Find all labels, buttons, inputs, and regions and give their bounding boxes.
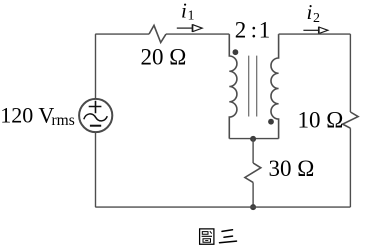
- svg-text:1: 1: [188, 9, 195, 24]
- primary phase dot: [233, 49, 239, 55]
- junction node top of 30ohm: [250, 136, 256, 142]
- source minus sign: [90, 125, 101, 127]
- wire left vertical upper: [95, 34, 97, 98]
- svg-text:2: 2: [313, 11, 320, 26]
- arrow i2: [303, 29, 318, 31]
- resistor R 20ohm zigzag: [149, 25, 166, 42]
- AC source circle: [79, 99, 112, 132]
- svg-text:i: i: [181, 0, 187, 23]
- source plus sign: [89, 101, 102, 113]
- caption glyph tu (figure): [200, 229, 214, 244]
- wire right vertical upper: [349, 34, 351, 112]
- wire down to 30ohm: [252, 139, 254, 163]
- svg-text:2: 2: [235, 17, 247, 42]
- svg-text:rms: rms: [52, 112, 75, 129]
- arrow i1: [177, 27, 193, 29]
- svg-text:30 Ω: 30 Ω: [269, 156, 315, 181]
- wire top-left horizontal: [95, 33, 149, 35]
- bottom rail wire: [95, 206, 350, 208]
- wire top-left to transformer: [166, 33, 229, 35]
- caption glyph san (three): [220, 230, 237, 243]
- svg-text:i: i: [307, 0, 313, 24]
- svg-text::: :: [251, 17, 257, 42]
- svg-text:120 V: 120 V: [0, 103, 54, 128]
- transformer bottom wire: [229, 138, 278, 140]
- source sine wave: [84, 114, 108, 121]
- secondary phase dot: [268, 119, 274, 125]
- svg-text:20 Ω: 20 Ω: [141, 45, 187, 70]
- wire top-right horizontal: [279, 33, 351, 35]
- wire 30ohm to bottom rail: [252, 182, 254, 207]
- wire left vertical lower: [95, 133, 97, 208]
- svg-text:10 Ω: 10 Ω: [298, 108, 344, 133]
- wire right vertical lower: [349, 128, 351, 207]
- junction node bottom of 30ohm: [250, 204, 256, 210]
- svg-text:1: 1: [259, 17, 271, 42]
- resistor 10ohm zigzag: [343, 112, 359, 128]
- transformer primary winding: [229, 34, 237, 139]
- resistor 30ohm zigzag: [245, 163, 261, 182]
- transformer core: [249, 56, 257, 117]
- transformer secondary winding: [271, 34, 279, 139]
